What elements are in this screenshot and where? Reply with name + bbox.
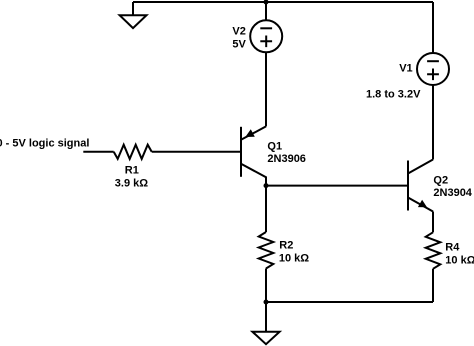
transistor Q2 base bar: [407, 161, 409, 211]
V2 minus sign: [260, 27, 272, 29]
svg-text:2N3906: 2N3906: [267, 153, 306, 165]
resistor R2: [259, 232, 274, 269]
wire bottom rail: [266, 301, 433, 303]
wire V1 top drop: [432, 2, 434, 53]
ground bottom: [252, 332, 279, 345]
svg-text:Q2: Q2: [433, 174, 448, 186]
resistor R1: [114, 145, 152, 159]
ground bottom stem: [265, 302, 267, 332]
svg-text:V1: V1: [399, 62, 412, 74]
voltage source V2: [250, 20, 282, 52]
transistor Q2 collector diagonal: [408, 160, 433, 174]
wire Q2 emitter to R4: [432, 212, 434, 233]
svg-text:V2: V2: [232, 26, 245, 38]
wire R4 to bottom rail: [432, 269, 434, 302]
V2 plus sign: [260, 36, 272, 48]
node Q1 collector junction: [264, 183, 269, 188]
node bottom rail / ground junction: [264, 300, 269, 305]
wire junction to R2: [265, 186, 267, 232]
wire input to R1: [83, 151, 113, 153]
transistor Q1 emitter diagonal: [241, 126, 266, 139]
wire top rail: [133, 1, 433, 3]
transistor Q1 emitter arrow: [245, 129, 255, 137]
wire V1 to Q2 collector: [432, 85, 434, 160]
wire V2 to top rail: [265, 2, 267, 20]
ground top-left: [120, 15, 147, 28]
V1 minus sign: [427, 60, 439, 62]
transistor Q2 emitter arrow: [418, 200, 427, 208]
svg-text:2N3904: 2N3904: [433, 187, 472, 199]
svg-text:10 kΩ: 10 kΩ: [279, 253, 309, 265]
svg-text:0 - 5V logic signal: 0 - 5V logic signal: [0, 138, 89, 150]
node top rail / V2 junction: [264, 0, 269, 5]
svg-text:R4: R4: [445, 242, 460, 254]
svg-text:R1: R1: [125, 165, 139, 177]
V1 plus sign: [427, 69, 439, 81]
wire Q1 collector to Q2 base: [266, 185, 407, 187]
svg-text:R2: R2: [279, 240, 293, 252]
svg-text:5V: 5V: [232, 38, 246, 50]
transistor Q2 emitter diagonal: [408, 198, 433, 212]
transistor Q1 base bar: [240, 127, 242, 177]
wire V2 to Q1 emitter: [265, 52, 267, 126]
svg-text:10 kΩ: 10 kΩ: [445, 255, 474, 267]
voltage source V1: [417, 53, 449, 85]
svg-text:3.9 kΩ: 3.9 kΩ: [115, 178, 148, 190]
wire R2 to bottom junction: [265, 269, 267, 303]
wire R1 to Q1 base: [152, 151, 240, 153]
transistor Q1 collector diagonal: [241, 164, 266, 186]
ground top-left stem: [132, 2, 134, 15]
svg-text:Q1: Q1: [267, 140, 282, 152]
resistor R4: [426, 232, 441, 268]
svg-text:1.8 to 3.2V: 1.8 to 3.2V: [366, 88, 421, 100]
